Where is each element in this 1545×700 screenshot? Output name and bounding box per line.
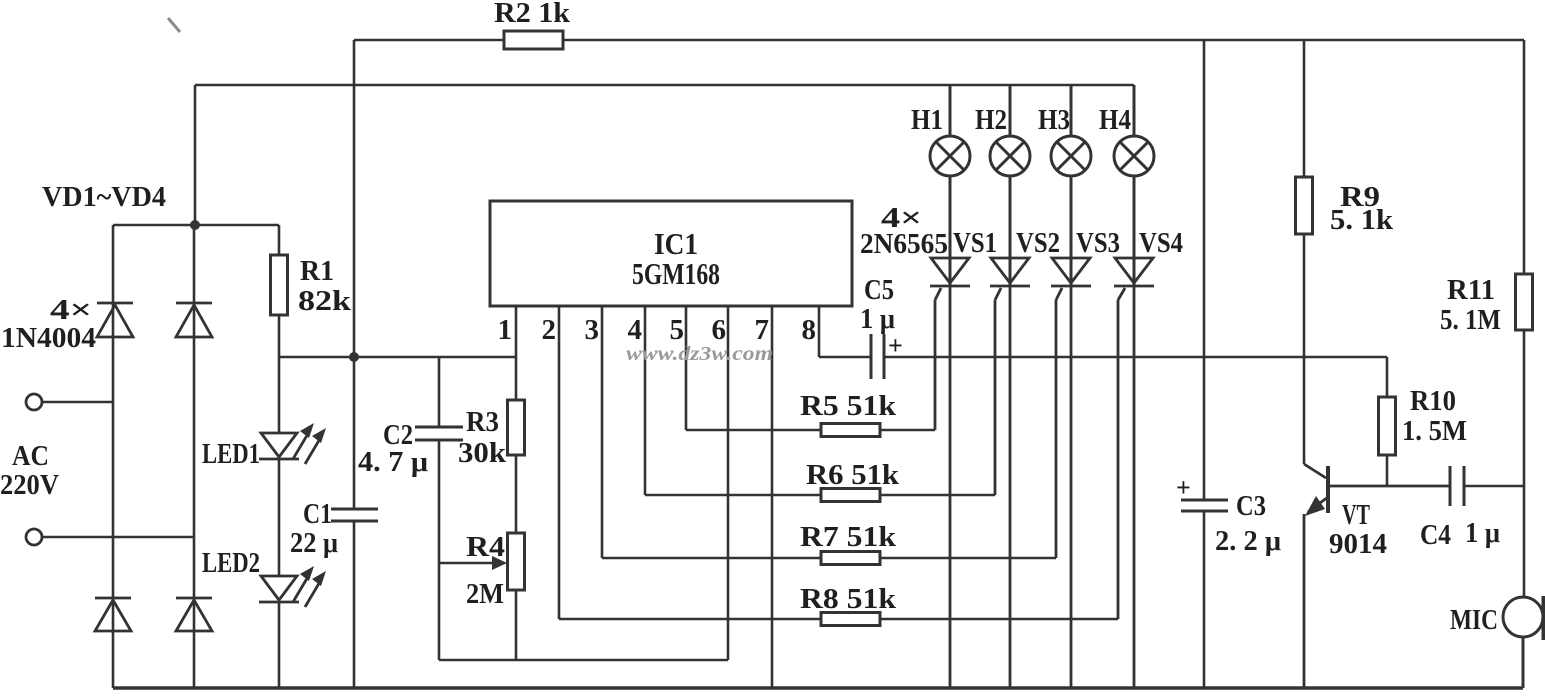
svg-text:R11: R11 xyxy=(1447,275,1495,306)
svg-text:+: + xyxy=(1176,473,1191,502)
wire: pin 4 column down to R6 line xyxy=(644,306,647,495)
diode VD3 xyxy=(95,598,131,631)
resistor R9 body xyxy=(1296,177,1313,234)
svg-text:4. 7 μ: 4. 7 μ xyxy=(358,447,428,478)
capacitor C2 plates xyxy=(415,427,463,440)
IC U1: IC1 5GM168 box xyxy=(490,201,852,306)
svg-text:C5: C5 xyxy=(864,275,894,306)
potentiometer R4 wiper arrow xyxy=(439,562,496,565)
svg-text:R6 51k: R6 51k xyxy=(806,460,899,491)
capacitor C5 plates xyxy=(871,334,884,379)
wire: bridge top link (113,225)-(279,225) xyxy=(113,224,279,227)
svg-text:H2: H2 xyxy=(975,105,1007,136)
wire: C4 right lead to right rail xyxy=(1464,485,1524,488)
svg-text:H1: H1 xyxy=(911,105,943,136)
wire: pin 8 lead to C5 xyxy=(819,356,871,359)
svg-text:VS2: VS2 xyxy=(1016,228,1060,259)
wire: R3 to R4 xyxy=(515,455,518,533)
svg-text:1N4004: 1N4004 xyxy=(1,323,96,354)
wire: pin 2 column down to R8 line xyxy=(558,306,561,619)
svg-text:R5 51k: R5 51k xyxy=(800,391,896,422)
capacitor C3 plates xyxy=(1181,500,1228,511)
resistor R11 body xyxy=(1516,274,1533,330)
diode VD4 xyxy=(176,598,212,631)
svg-text:www.dz3w.com: www.dz3w.com xyxy=(626,343,773,365)
diode VD2 xyxy=(176,303,212,337)
svg-text:C4: C4 xyxy=(1420,520,1451,551)
svg-text:C1: C1 xyxy=(303,499,332,530)
wire: R8 line right to VS4 gate xyxy=(880,618,1118,621)
svg-text:R3: R3 xyxy=(466,407,499,438)
svg-text:1 μ: 1 μ xyxy=(1465,518,1500,549)
svg-text:1: 1 xyxy=(498,314,513,346)
wire: R7 line left from pin3 corner xyxy=(602,557,821,560)
svg-text:H3: H3 xyxy=(1038,105,1070,136)
wire: lamp rail y=85 from riser to H4 xyxy=(195,84,1134,87)
svg-text:4×: 4× xyxy=(50,295,92,326)
terminal: AC input top circle xyxy=(26,394,42,410)
thyristor VS1 xyxy=(930,258,970,688)
wire: pin1 column from IC to R3 xyxy=(515,306,518,400)
svg-text:LED1: LED1 xyxy=(202,439,260,470)
wire: LED1 to LED2 xyxy=(278,459,281,576)
svg-text:6: 6 xyxy=(712,314,727,346)
svg-text:4: 4 xyxy=(628,314,643,346)
wire: R7 line right to VS3 gate xyxy=(880,557,1056,560)
wire: right rail upper (top corner down to R11) xyxy=(1523,40,1526,274)
wire: riser from bridge junction to lamp rail xyxy=(194,85,197,225)
node: junction dot at (354,357) xyxy=(349,352,359,362)
wire: C1 bottom lead to bottom rail xyxy=(353,521,356,688)
thyristor VS2 xyxy=(990,258,1030,688)
svg-text:R8 51k: R8 51k xyxy=(800,584,896,615)
svg-text:2: 2 xyxy=(542,314,557,346)
wire: pin 8 stub down xyxy=(818,306,821,357)
resistor R10 body xyxy=(1379,397,1396,455)
wire: pin 7 column down to bottom rail xyxy=(771,306,774,688)
svg-text:8: 8 xyxy=(802,314,817,346)
wire: C3 column from top rail down xyxy=(1203,40,1206,500)
wire: R1 top lead from bridge link xyxy=(278,225,281,255)
terminal: AC input bottom circle xyxy=(26,529,42,545)
wire: pin 5 column down to R5 line xyxy=(685,306,688,430)
svg-text:5. 1M: 5. 1M xyxy=(1440,305,1501,336)
svg-text:5: 5 xyxy=(670,314,685,346)
wire: main vertical x=354 from top rail corner down to C1 xyxy=(353,40,356,509)
resistor R1 body xyxy=(271,255,288,315)
resistor R5 body xyxy=(821,424,880,437)
thyristor VS4 xyxy=(1114,258,1154,688)
wire: R10 bottom lead to base line xyxy=(1386,455,1389,486)
svg-text:7: 7 xyxy=(755,314,770,346)
wire: R4 bottom lead down to y=658 link xyxy=(515,590,518,660)
wire: pin 6 column down to y=658 link xyxy=(727,306,730,660)
svg-text:R1: R1 xyxy=(300,256,334,287)
lamp H4 xyxy=(1114,85,1154,286)
svg-text:VD1~VD4: VD1~VD4 xyxy=(42,182,166,213)
wire: bridge right column (VD2/VD4 branch) xyxy=(193,225,196,688)
svg-text:2N6565: 2N6565 xyxy=(860,229,948,260)
svg-text:VS3: VS3 xyxy=(1076,228,1120,259)
resistor R8 body xyxy=(821,613,880,626)
wire: bridge left column (VD1/VD3 branch) xyxy=(112,225,115,688)
resistor R7 body xyxy=(821,552,880,565)
wire: R9 bottom lead down to transistor collector xyxy=(1303,234,1306,464)
wire: AC top lead to bridge left column xyxy=(42,401,113,404)
transistor VT 9014 xyxy=(1304,464,1450,688)
wire: bottom link y=658 from C2 column to pin6 column xyxy=(439,659,728,662)
wire: right rail from R11 down to MIC xyxy=(1523,330,1526,597)
svg-text:220V: 220V xyxy=(0,470,59,501)
wire: C2 bottom lead down to y=658 link xyxy=(438,440,441,660)
svg-text:H4: H4 xyxy=(1099,105,1131,136)
wire: R6 line right to VS2 gate xyxy=(880,494,995,497)
lamp H3 xyxy=(1051,85,1091,286)
wire: AC bottom lead to bridge right column xyxy=(42,536,194,539)
wire: C3 bottom lead to bottom rail xyxy=(1203,511,1206,688)
microphone MIC xyxy=(1503,596,1544,688)
svg-text:1. 5M: 1. 5M xyxy=(1402,416,1467,447)
svg-text:C3: C3 xyxy=(1236,491,1266,522)
wire: R9 column from top rail xyxy=(1303,40,1306,177)
svg-text:R10: R10 xyxy=(1410,386,1456,417)
wire: R5 line right to VS1 gate xyxy=(880,429,935,432)
resistor R2 body xyxy=(504,31,563,49)
wire: top rail left segment from corner (354,40) to R2 xyxy=(354,39,504,42)
wire: top rail right segment from R2 to top-right corner xyxy=(563,39,1524,42)
wire: bottom rail xyxy=(113,686,1523,690)
svg-text:2M: 2M xyxy=(466,579,504,610)
svg-text:30k: 30k xyxy=(458,438,506,469)
thyristor VS3 xyxy=(1051,258,1091,688)
wire: R10 top lead from y=357 corner xyxy=(1386,357,1389,397)
stray scan mark top left xyxy=(168,18,180,32)
svg-text:R2 1k: R2 1k xyxy=(494,0,570,29)
svg-text:MIC: MIC xyxy=(1450,605,1498,636)
svg-text:R4: R4 xyxy=(466,532,505,563)
svg-text:VS4: VS4 xyxy=(1139,228,1183,259)
svg-text:AC: AC xyxy=(12,441,49,472)
wire: R6 line left from pin4 corner xyxy=(645,494,821,497)
potentiometer R4 body xyxy=(508,533,525,590)
lamp H2 xyxy=(990,85,1030,286)
wire: C5 output line y=357 to R10 corner xyxy=(884,356,1387,359)
wire: R5 line left from pin5 corner xyxy=(686,429,821,432)
svg-text:5. 1k: 5. 1k xyxy=(1330,205,1393,236)
wire: R8 line left from pin2 corner xyxy=(559,618,821,621)
svg-text:VT: VT xyxy=(1342,500,1370,531)
capacitor C4 plates xyxy=(1450,466,1464,506)
svg-text:LED2: LED2 xyxy=(202,548,260,579)
svg-text:+: + xyxy=(888,331,903,360)
svg-text:22 μ: 22 μ xyxy=(290,528,338,559)
wire: supply node horizontal y=357 from R1 branch to pin1 column xyxy=(279,356,516,359)
node: junction dot at (195,225) xyxy=(190,220,200,230)
wire: R1 bottom lead down to LED1 xyxy=(278,315,281,433)
resistor R6 body xyxy=(821,489,880,502)
svg-text:VS1: VS1 xyxy=(953,228,997,259)
capacitor C1 plates xyxy=(331,509,378,521)
svg-text:82k: 82k xyxy=(298,286,352,317)
svg-text:9014: 9014 xyxy=(1329,529,1387,560)
wire: LED2 cathode down to bottom rail xyxy=(278,602,281,688)
lamp H1 xyxy=(930,85,970,286)
wire: pin 3 column down to R7 line xyxy=(601,306,604,558)
resistor R3 body xyxy=(508,400,525,455)
svg-text:2. 2 μ: 2. 2 μ xyxy=(1215,526,1281,557)
LED LED2 xyxy=(259,566,326,607)
svg-text:3: 3 xyxy=(585,314,600,346)
wire: C2 top lead from y=357 node xyxy=(438,357,441,427)
svg-text:5GM168: 5GM168 xyxy=(632,256,720,291)
diode VD1 xyxy=(97,303,133,337)
svg-text:R7 51k: R7 51k xyxy=(800,522,896,553)
LED LED1 xyxy=(259,423,326,464)
